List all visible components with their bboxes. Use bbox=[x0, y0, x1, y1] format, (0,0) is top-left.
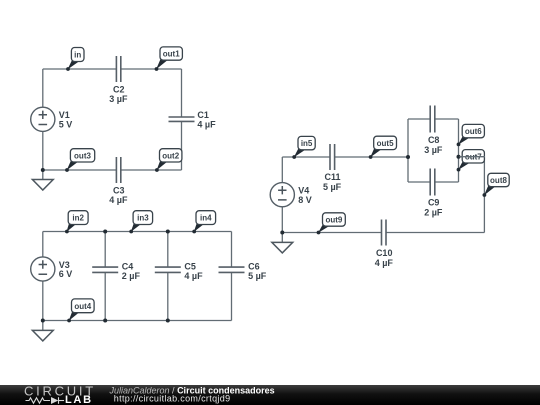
wire box bottom branch right bbox=[435, 181, 459, 183]
ground (circuit 3) bbox=[272, 233, 293, 253]
capacitor C4 bbox=[92, 262, 140, 281]
wire C6 branch upper bbox=[231, 232, 233, 268]
ground (circuit 2) bbox=[32, 321, 53, 341]
capacitor C8 bbox=[424, 106, 443, 155]
svg-text:C9: C9 bbox=[428, 198, 440, 208]
junction dot C5 bottom bbox=[166, 319, 170, 323]
wire top-left vertical (V1 to top rail) bbox=[42, 69, 44, 107]
wire box top branch left bbox=[408, 118, 430, 120]
capacitor C6 bbox=[219, 262, 267, 281]
junction dot V3/ground bbox=[41, 319, 45, 323]
junction dot ground/V1 bbox=[41, 168, 45, 172]
svg-text:5 µF: 5 µF bbox=[248, 271, 267, 281]
wire C5 branch upper bbox=[167, 232, 169, 268]
node out5 bbox=[369, 136, 397, 159]
wire bottom rail left segment bbox=[282, 232, 381, 234]
wire main rail right segment bbox=[335, 156, 408, 158]
voltage source V1 bbox=[31, 107, 73, 131]
svg-text:5 V: 5 V bbox=[59, 120, 73, 130]
junction dot box right / out7 wire bbox=[457, 155, 461, 159]
wire main rail left segment bbox=[282, 156, 330, 158]
footer background bbox=[0, 385, 540, 405]
junction dot C4 top bbox=[103, 230, 107, 234]
svg-text:http://circuitlab.com/crtqjd9: http://circuitlab.com/crtqjd9 bbox=[114, 393, 231, 403]
node in4 bbox=[192, 211, 215, 234]
svg-text:in5: in5 bbox=[301, 139, 313, 148]
wire box bottom branch left bbox=[408, 181, 430, 183]
svg-text:4 µF: 4 µF bbox=[197, 120, 216, 130]
node out3 bbox=[65, 149, 95, 172]
svg-text:out3: out3 bbox=[74, 151, 91, 160]
node in3 bbox=[129, 211, 152, 234]
wire C4 branch lower bbox=[104, 272, 106, 320]
svg-text:out6: out6 bbox=[465, 127, 482, 136]
node in5 bbox=[292, 136, 315, 159]
wire right vertical down bbox=[483, 157, 485, 233]
svg-text:in2: in2 bbox=[72, 214, 84, 223]
wire bottom rail bbox=[43, 320, 232, 322]
svg-text:out4: out4 bbox=[74, 302, 91, 311]
node out4 bbox=[67, 299, 94, 323]
svg-text:2 µF: 2 µF bbox=[424, 207, 443, 217]
svg-text:3 µF: 3 µF bbox=[109, 94, 128, 104]
node out8 bbox=[483, 173, 510, 197]
capacitor C9 bbox=[424, 169, 443, 218]
wire top rail bbox=[43, 231, 232, 233]
wire box right vertical bbox=[458, 119, 460, 182]
node out6 bbox=[457, 124, 485, 146]
wire bottom rail right segment bbox=[121, 169, 182, 171]
node in2 bbox=[65, 211, 88, 234]
wire top rail right segment bbox=[121, 68, 182, 70]
svg-text:out2: out2 bbox=[162, 151, 179, 160]
wire C6 branch lower bbox=[231, 272, 233, 320]
wire left vertical top (V3 to top rail) bbox=[42, 232, 44, 257]
node out9 bbox=[317, 213, 346, 235]
node in bbox=[66, 48, 84, 71]
svg-text:in: in bbox=[74, 51, 81, 60]
svg-text:in4: in4 bbox=[200, 214, 212, 223]
svg-text:3 µF: 3 µF bbox=[424, 145, 443, 155]
capacitor C1 bbox=[169, 110, 217, 129]
node out1 bbox=[155, 47, 183, 71]
capacitor C11 bbox=[323, 144, 342, 192]
wire right vertical lower bbox=[181, 121, 183, 170]
junction dot C4 bottom bbox=[103, 319, 107, 323]
diode triangle bbox=[51, 397, 58, 404]
svg-text:C11: C11 bbox=[324, 172, 340, 182]
svg-text:C2: C2 bbox=[113, 85, 125, 95]
svg-text:5 µF: 5 µF bbox=[323, 182, 342, 192]
svg-text:2 µF: 2 µF bbox=[122, 271, 141, 281]
junction dot V4/ground bbox=[280, 231, 284, 235]
node out2 bbox=[155, 149, 182, 172]
CircuitLab logo resistor+diode symbol bbox=[26, 397, 65, 404]
voltage source V4 bbox=[270, 183, 312, 207]
svg-text:4 µF: 4 µF bbox=[109, 195, 128, 205]
junction dot C5 top bbox=[166, 230, 170, 234]
capacitor C5 bbox=[155, 262, 203, 281]
svg-text:out9: out9 bbox=[325, 216, 342, 225]
wire C5 branch lower bbox=[167, 272, 169, 320]
wire top rail left segment bbox=[43, 68, 117, 70]
svg-text:4 µF: 4 µF bbox=[375, 258, 394, 268]
svg-text:in3: in3 bbox=[137, 214, 149, 223]
svg-text:out8: out8 bbox=[490, 176, 507, 185]
svg-text:8 V: 8 V bbox=[298, 195, 312, 205]
svg-text:out5: out5 bbox=[377, 139, 394, 148]
ground (circuit 1) bbox=[32, 170, 53, 190]
capacitor C2 bbox=[109, 56, 128, 104]
voltage source V3 bbox=[31, 257, 73, 281]
wire C4 branch upper bbox=[104, 232, 106, 268]
svg-text:out1: out1 bbox=[163, 50, 180, 59]
svg-text:C3: C3 bbox=[113, 186, 125, 196]
wire box top branch right bbox=[435, 118, 459, 120]
svg-text:C10: C10 bbox=[376, 248, 393, 258]
capacitor C10 bbox=[375, 220, 394, 268]
node out7 bbox=[457, 150, 485, 172]
wire out7 horizontal bbox=[459, 156, 485, 158]
wire V4 top bbox=[281, 157, 283, 182]
wire bottom rail right segment bbox=[386, 232, 484, 234]
svg-text:6 V: 6 V bbox=[59, 269, 73, 279]
svg-text:C8: C8 bbox=[428, 135, 440, 145]
wire V1 bottom to ground junction bbox=[42, 132, 44, 170]
wire box left vertical bbox=[407, 119, 409, 182]
wire V3 bottom to bottom rail bbox=[42, 282, 44, 321]
junction dot main rail / box left bbox=[406, 155, 410, 159]
wire V4 bottom bbox=[281, 207, 283, 232]
wire right vertical upper bbox=[181, 69, 183, 117]
capacitor C3 bbox=[109, 157, 128, 205]
svg-text:LAB: LAB bbox=[65, 394, 93, 405]
wire bottom rail left segment bbox=[43, 169, 117, 171]
svg-text:4 µF: 4 µF bbox=[184, 271, 203, 281]
